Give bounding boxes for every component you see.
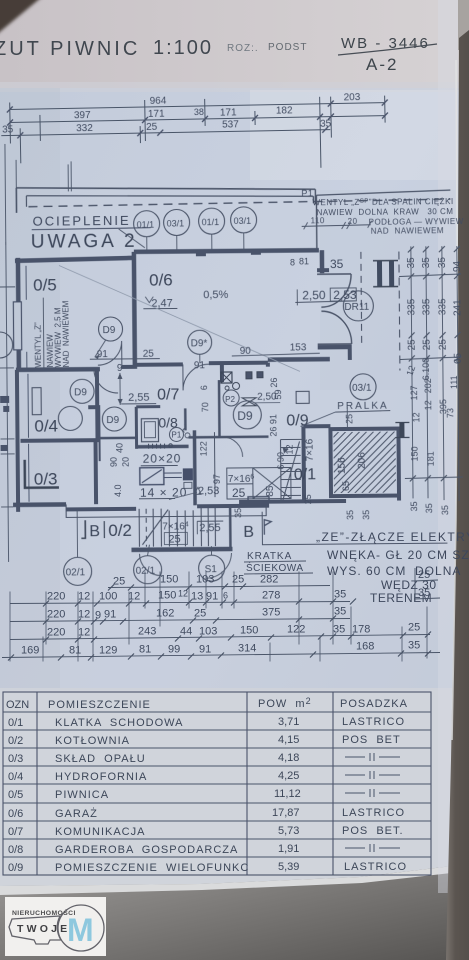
- svg-text:20×20: 20×20: [143, 451, 182, 465]
- svg-text:12: 12: [78, 609, 90, 621]
- right chain labels lower: [404, 357, 460, 515]
- svg-text:335: 335: [421, 298, 432, 315]
- svg-text:162: 162: [156, 608, 174, 620]
- dim row 0: [113, 574, 278, 588]
- table rows left: [8, 717, 249, 874]
- dim row 1: [47, 589, 346, 603]
- svg-text:335: 335: [406, 298, 417, 315]
- svg-text:81: 81: [69, 645, 81, 657]
- svg-text:0/2: 0/2: [108, 521, 132, 540]
- svg-text:D9: D9: [74, 387, 87, 398]
- svg-text:0/6: 0/6: [149, 270, 173, 289]
- svg-text:12: 12: [423, 400, 433, 410]
- circle 03/1: [350, 374, 376, 400]
- svg-text:40: 40: [115, 443, 125, 453]
- left edge extension lines: [0, 242, 18, 562]
- svg-text:2,53: 2,53: [198, 485, 220, 497]
- svg-text:122: 122: [199, 441, 209, 456]
- wall stair block outline: [330, 429, 399, 497]
- door arc 0/4: [94, 369, 118, 393]
- svg-text:8: 8: [290, 257, 295, 267]
- svg-text:44: 44: [180, 626, 192, 638]
- label OCIEPLENIE: [32, 213, 151, 230]
- svg-text:25: 25: [422, 339, 433, 351]
- svg-text:D9: D9: [103, 325, 116, 336]
- wall left outer: [16, 258, 21, 370]
- extension verticals through rows: [10, 572, 427, 662]
- svg-text:25: 25: [143, 349, 155, 360]
- top wall jamb stubs: [196, 249, 261, 257]
- circle D9 left: [70, 379, 94, 403]
- svg-text:150: 150: [240, 625, 258, 637]
- extension lines from top dims: [5, 143, 72, 245]
- chimney flues 20x20 boiler: [138, 430, 197, 506]
- wall garage south: [135, 362, 183, 366]
- rotated dims middle: [108, 377, 355, 497]
- svg-text:KOTŁOWNIA: KOTŁOWNIA: [55, 735, 130, 747]
- svg-text:GARDEROBA GOSPODARCZA: GARDEROBA GOSPODARCZA: [55, 844, 238, 856]
- svg-text:4,15: 4,15: [278, 734, 299, 746]
- dim 91 25 corridor top: [97, 342, 307, 372]
- flue box corridor: [221, 372, 263, 390]
- section mark II: [373, 261, 398, 287]
- svg-text:A-2: A-2: [366, 55, 398, 74]
- svg-text:150: 150: [160, 574, 178, 586]
- svg-text:6.100: 6.100: [421, 358, 431, 381]
- wall bottom left: [13, 502, 66, 507]
- svg-text:5,73: 5,73: [278, 825, 299, 837]
- svg-text:NAD NAWIEWEM: NAD NAWIEWEM: [371, 226, 444, 236]
- svg-text:65: 65: [453, 352, 464, 364]
- svg-text:35: 35: [409, 501, 419, 511]
- svg-text:KOMUNIKACJA: KOMUNIKACJA: [55, 826, 145, 838]
- dim row 2: [47, 606, 346, 622]
- circle 02/1 a: [63, 509, 92, 585]
- svg-text:171: 171: [220, 107, 237, 118]
- svg-text:111: 111: [449, 375, 459, 389]
- svg-text:314: 314: [238, 643, 256, 655]
- svg-text:35: 35: [418, 587, 430, 599]
- svg-text:122: 122: [287, 624, 305, 636]
- garage door DR11: [317, 252, 374, 347]
- svg-text:OZN: OZN: [6, 699, 29, 711]
- extension verticals: [9, 102, 12, 143]
- svg-text:OCIEPLENIE: OCIEPLENIE: [33, 213, 131, 229]
- svg-text:35: 35: [406, 257, 417, 269]
- svg-text:206: 206: [357, 452, 368, 469]
- svg-text:9: 9: [117, 363, 123, 374]
- svg-text:35: 35: [345, 510, 355, 520]
- svg-text:153: 153: [290, 342, 307, 353]
- table area lighter: [0, 688, 469, 888]
- door ticks 0/8: [149, 444, 173, 449]
- svg-text:12: 12: [78, 591, 90, 603]
- svg-text:85: 85: [265, 485, 276, 497]
- wall mid horizontal left: [16, 367, 100, 372]
- svg-text:4,25: 4,25: [278, 770, 299, 782]
- svg-text:26 91: 26 91: [268, 414, 278, 437]
- svg-text:KRATKA: KRATKA: [247, 551, 292, 562]
- svg-text:TWOJE: TWOJE: [17, 923, 70, 935]
- svg-text:26: 26: [269, 378, 279, 388]
- label KRATKA SCIEKOWA: [244, 551, 313, 574]
- svg-text:91: 91: [199, 644, 211, 656]
- svg-text:POS BET.: POS BET.: [342, 825, 404, 837]
- svg-text:B: B: [89, 523, 100, 540]
- dim row 1 line: [10, 599, 356, 607]
- svg-text:35: 35: [421, 257, 432, 269]
- wall 0/9 left: [220, 363, 224, 382]
- svg-text:2,50: 2,50: [302, 288, 326, 302]
- svg-text:241: 241: [452, 299, 463, 316]
- bottom surface below paper: [0, 864, 469, 960]
- top edge line above right text: [316, 190, 450, 195]
- lintel circle 03/1 b: [230, 207, 256, 250]
- dim row 3 line: [10, 632, 431, 643]
- leader to lintel: [119, 229, 145, 248]
- logo key outline: [9, 905, 104, 951]
- svg-text:0/7: 0/7: [157, 386, 179, 403]
- svg-text:02/1: 02/1: [136, 566, 156, 577]
- svg-text:150: 150: [158, 590, 176, 602]
- svg-text:ROZ:.: ROZ:.: [227, 43, 259, 54]
- svg-text:35: 35: [437, 257, 448, 269]
- svg-text:P1: P1: [171, 430, 181, 439]
- left edge fixtures: [0, 396, 9, 451]
- svg-text:4.0: 4.0: [113, 484, 123, 497]
- svg-text:0/1: 0/1: [294, 466, 316, 483]
- svg-text:220: 220: [47, 591, 65, 603]
- svg-text:B: B: [243, 524, 254, 541]
- dim row 2 line: [10, 616, 350, 625]
- svg-text:397: 397: [74, 110, 91, 121]
- svg-text:LASTRICO: LASTRICO: [342, 716, 405, 728]
- svg-text:2,53: 2,53: [333, 288, 357, 302]
- svg-text:1:100: 1:100: [153, 37, 213, 59]
- slope diagonal line: [59, 263, 300, 373]
- dim line row 3: [1, 130, 330, 136]
- svg-text:0/4: 0/4: [8, 771, 23, 783]
- svg-text:M: M: [67, 912, 94, 948]
- circle 02/1 b: [133, 545, 161, 584]
- wall top garage 0/6: [134, 250, 319, 252]
- svg-text:35: 35: [2, 124, 14, 135]
- svg-text:81: 81: [139, 644, 151, 656]
- svg-text:20: 20: [121, 457, 131, 467]
- svg-text:SKŁAD OPAŁU: SKŁAD OPAŁU: [55, 753, 146, 765]
- table values: [272, 716, 301, 873]
- svg-text:35: 35: [330, 257, 344, 271]
- dim line under 91 25: [90, 358, 160, 361]
- vent text vertical in 0/5: [33, 297, 71, 369]
- table posadzka: [342, 716, 407, 873]
- svg-text:97: 97: [212, 474, 222, 484]
- svg-text:P1: P1: [301, 188, 313, 198]
- wall top 0/5: [15, 258, 134, 261]
- svg-text:100: 100: [99, 591, 117, 603]
- dim line row 2: [10, 116, 385, 123]
- svg-text:6: 6: [199, 385, 209, 390]
- top lighter strip: [0, 0, 469, 88]
- svg-text:PODST: PODST: [268, 42, 307, 53]
- svg-text:D9: D9: [106, 415, 119, 426]
- svg-text:ŚCIEKOWA: ŚCIEKOWA: [246, 561, 304, 574]
- table grid: [3, 692, 431, 875]
- svg-text:282: 282: [260, 574, 278, 586]
- label PRALKA: [300, 401, 390, 427]
- svg-text:17,87: 17,87: [272, 807, 300, 819]
- table header: [6, 696, 408, 711]
- stairs labels: [162, 438, 317, 545]
- svg-text:278: 278: [262, 590, 280, 602]
- svg-text:14 × 20: 14 × 20: [140, 485, 187, 499]
- wall inner face lines left: [26, 266, 29, 502]
- svg-text:537: 537: [222, 119, 239, 130]
- svg-text:12: 12: [411, 412, 421, 422]
- svg-text:169: 169: [21, 645, 39, 657]
- right vertical dim chains: [399, 246, 463, 502]
- wall right bottom corner: [396, 429, 401, 501]
- svg-text:POMIESZCZENIE WIELOFUNKC: POMIESZCZENIE WIELOFUNKC: [55, 862, 249, 874]
- lintel circle 01/1: [134, 211, 160, 251]
- wall bottom mid: [197, 504, 269, 509]
- section letter B left: [81, 520, 104, 540]
- wall 0/8: [136, 407, 160, 449]
- svg-text:168: 168: [356, 641, 374, 653]
- svg-text:0/8: 0/8: [8, 844, 23, 856]
- svg-text:70: 70: [200, 402, 210, 412]
- svg-text:12: 12: [178, 589, 188, 599]
- terrace line bottom: [66, 503, 266, 518]
- mid stair box 7x16: [214, 431, 291, 499]
- svg-text:81: 81: [299, 256, 309, 266]
- svg-text:25: 25: [418, 569, 430, 581]
- wall 0/9 | 0/1: [268, 362, 331, 427]
- svg-text:0/3: 0/3: [8, 753, 23, 765]
- svg-text:35: 35: [333, 624, 345, 636]
- svg-text:LASTRICO: LASTRICO: [344, 861, 407, 873]
- section letter B right: [230, 495, 447, 548]
- svg-text:35: 35: [320, 119, 332, 130]
- svg-text:POW m2: POW m2: [258, 696, 312, 710]
- svg-text:2,55: 2,55: [199, 522, 221, 534]
- svg-text:220: 220: [47, 609, 65, 621]
- dim row 4: [21, 640, 420, 657]
- svg-text:243: 243: [138, 626, 156, 638]
- dim row 3: [47, 622, 420, 639]
- svg-text:PIWNICA: PIWNICA: [55, 789, 109, 801]
- svg-text:01/1: 01/1: [137, 220, 155, 230]
- svg-text:110: 110: [311, 216, 325, 225]
- svg-text:25: 25: [344, 414, 354, 424]
- circle S1: [198, 546, 224, 581]
- svg-text:38: 38: [194, 107, 204, 117]
- svg-text:ZUT PIWNIC: ZUT PIWNIC: [0, 38, 140, 60]
- svg-text:25: 25: [168, 533, 180, 545]
- svg-text:35: 35: [408, 640, 420, 652]
- circle P1: [169, 424, 190, 441]
- svg-text:25: 25: [407, 339, 418, 351]
- svg-text:LASTRICO: LASTRICO: [342, 807, 405, 819]
- niche box 0/9: [296, 391, 309, 403]
- svg-text:0/2: 0/2: [8, 735, 23, 747]
- soft shading overlays: [0, 88, 60, 688]
- pump symbol: [242, 398, 256, 406]
- svg-text:P2: P2: [225, 395, 235, 404]
- level mark 2,47 garage: [143, 296, 177, 309]
- svg-text:WENTYL „Z”: WENTYL „Z”: [33, 322, 42, 368]
- bottom 35 dims above wall: [233, 507, 371, 521]
- svg-text:0/9: 0/9: [286, 412, 308, 429]
- svg-text:129: 129: [99, 645, 117, 657]
- svg-text:25: 25: [438, 339, 449, 351]
- svg-text:02/1: 02/1: [66, 567, 86, 578]
- dims 25 35 right lower: [414, 568, 440, 602]
- svg-text:73: 73: [445, 408, 455, 418]
- svg-text:11,12: 11,12: [274, 788, 301, 800]
- svg-text:35: 35: [424, 503, 434, 513]
- svg-text:WYS. 60 CM DOLNA: WYS. 60 CM DOLNA: [327, 564, 461, 578]
- svg-text:156: 156: [337, 457, 348, 474]
- svg-text:182: 182: [276, 105, 293, 116]
- svg-text:01/1: 01/1: [202, 217, 220, 227]
- svg-text:KLATKA SCHODOWA: KLATKA SCHODOWA: [55, 717, 183, 729]
- svg-text:0/5: 0/5: [33, 276, 57, 295]
- svg-text:NAD NAWIEWEM: NAD NAWIEWEM: [61, 300, 71, 367]
- wall 0/4|0/3 divider: [21, 438, 99, 443]
- svg-text:0/7: 0/7: [8, 826, 23, 838]
- circle D9 big: [233, 401, 261, 429]
- level 2,55 corridor: [88, 363, 156, 408]
- svg-text:POS BET: POS BET: [342, 734, 401, 746]
- ditto marks: [345, 753, 400, 852]
- svg-text:WB - 3446: WB - 3446: [341, 35, 430, 52]
- door arc 0/5: [98, 341, 122, 365]
- wall 0/3 right vertical: [94, 441, 99, 504]
- svg-text:0/6: 0/6: [8, 808, 23, 820]
- circle P2: [223, 390, 239, 406]
- svg-text:220: 220: [47, 627, 65, 639]
- svg-text:178: 178: [352, 624, 370, 636]
- svg-text:03/1: 03/1: [167, 218, 185, 228]
- dim line row 1: [10, 104, 331, 110]
- window 0/4: [32, 388, 41, 415]
- svg-text:WNĘKA- GŁ 20 CM SZ: WNĘKA- GŁ 20 CM SZ: [327, 548, 469, 562]
- svg-text:0/1: 0/1: [8, 717, 23, 729]
- svg-text:25: 25: [408, 622, 420, 634]
- dim row 0 line: [108, 584, 330, 591]
- svg-text:12: 12: [128, 591, 140, 603]
- svg-text:UWAGA 2: UWAGA 2: [31, 231, 138, 253]
- svg-text:D9*: D9*: [191, 338, 208, 349]
- svg-text:2,55: 2,55: [128, 392, 150, 404]
- svg-text:GARAŻ: GARAŻ: [55, 807, 98, 820]
- label 2,50: [255, 392, 280, 403]
- level 2,50 2,53 garage door: [295, 288, 357, 306]
- lintel circle 01/1 b: [199, 208, 225, 250]
- stairs interior flight: [281, 439, 304, 501]
- svg-text:6: 6: [223, 591, 228, 601]
- svg-text:03/1: 03/1: [234, 216, 252, 226]
- right edge paper highlight: [438, 0, 458, 893]
- section mark I right: [395, 422, 409, 437]
- stairs exterior: [131, 508, 233, 579]
- wall corridor right vertical: [95, 369, 100, 441]
- dark top-left corner: [0, 0, 43, 35]
- svg-text:59: 59: [273, 390, 283, 400]
- svg-text:90: 90: [109, 457, 119, 467]
- svg-text:03/1: 03/1: [352, 383, 372, 394]
- svg-text:0/5: 0/5: [8, 789, 23, 801]
- svg-text:WENTYL „ZSP”DLA SPALIN CIĘŻKI: WENTYL „ZSP”DLA SPALIN CIĘŻKI: [312, 197, 453, 207]
- svg-text:4,18: 4,18: [278, 752, 299, 764]
- dashed vertical right of garage: [399, 252, 400, 371]
- wentyl note top right: [301, 187, 464, 236]
- svg-text:0/4: 0/4: [34, 417, 58, 436]
- svg-text:PODŁOGA — WYWIEW: PODŁOGA — WYWIEW: [369, 217, 464, 227]
- adjacent page marks on right strip: [462, 96, 465, 228]
- right edge dark strip: [458, 0, 469, 50]
- svg-text:DR11: DR11: [344, 302, 369, 313]
- wall corridor bottom: [100, 437, 137, 440]
- svg-text:25: 25: [232, 486, 246, 500]
- wall divider 0/5|0/6: [134, 252, 135, 369]
- stair hatched block: [325, 350, 407, 550]
- window recess 0/5 left: [13, 302, 21, 350]
- svg-text:35: 35: [440, 505, 450, 515]
- svg-text:POSADZKA: POSADZKA: [340, 698, 408, 710]
- svg-text:25: 25: [146, 122, 158, 133]
- door arc garage to corridor: [183, 364, 209, 390]
- wall right of garage lower: [348, 347, 352, 360]
- svg-text:94: 94: [452, 260, 463, 272]
- hydrofornia circle tank: [58, 406, 82, 430]
- svg-text:POMIESZCZENIE: POMIESZCZENIE: [48, 699, 151, 711]
- svg-text:964: 964: [150, 96, 167, 107]
- svg-text:D9: D9: [237, 409, 253, 423]
- svg-text:0/8: 0/8: [158, 414, 178, 430]
- svg-text:12: 12: [78, 627, 90, 639]
- dims 8 81 35 top right: [290, 256, 344, 271]
- svg-text:PRALKA: PRALKA: [337, 401, 389, 412]
- circle D9 mid: [102, 407, 126, 431]
- eaves outline top: [16, 185, 315, 213]
- svg-text:171: 171: [148, 109, 165, 120]
- svg-text:„ZE”-ZŁĄCZE ELEKTRYC: „ZE”-ZŁĄCZE ELEKTRYC: [316, 530, 469, 544]
- svg-text:HYDROFORNIA: HYDROFORNIA: [55, 771, 147, 783]
- svg-text:1,91: 1,91: [278, 843, 299, 855]
- svg-text:5,39: 5,39: [278, 861, 299, 873]
- circle D9*: [188, 330, 212, 363]
- svg-text:25: 25: [113, 576, 125, 588]
- dim line 25 above hatch: [346, 407, 348, 429]
- svg-text:127: 127: [409, 385, 419, 400]
- wall right of garage upper: [320, 250, 325, 273]
- svg-text:332: 332: [76, 123, 93, 134]
- inner jog 0/3: [25, 459, 59, 487]
- logo white card: [5, 897, 106, 956]
- svg-text:202: 202: [423, 378, 433, 393]
- svg-text:0/9: 0/9: [8, 862, 23, 874]
- lintel circle 03/1: [164, 209, 190, 250]
- svg-text:7×16: 7×16: [305, 438, 316, 461]
- svg-text:99: 99: [168, 644, 180, 656]
- svg-text:203: 203: [344, 92, 361, 103]
- svg-text:181: 181: [426, 451, 436, 466]
- washer rect 0/8: [141, 419, 158, 442]
- svg-text:3,71: 3,71: [278, 716, 299, 728]
- svg-text:65: 65: [341, 481, 351, 491]
